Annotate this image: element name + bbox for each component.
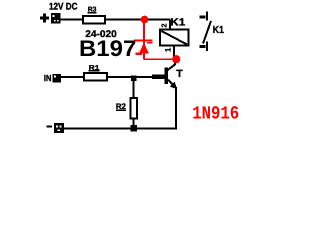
svg-text:1N916: 1N916 [192, 104, 239, 125]
svg-text:K1: K1 [170, 17, 185, 28]
svg-text:1: 1 [164, 47, 173, 52]
svg-text:R2: R2 [116, 102, 127, 111]
svg-text:B197: B197 [79, 36, 136, 61]
svg-text:IN: IN [44, 73, 52, 83]
svg-text:K1: K1 [213, 25, 225, 36]
svg-text:2: 2 [159, 24, 168, 28]
svg-text:T: T [176, 68, 183, 80]
svg-text:12V DC: 12V DC [49, 2, 78, 13]
